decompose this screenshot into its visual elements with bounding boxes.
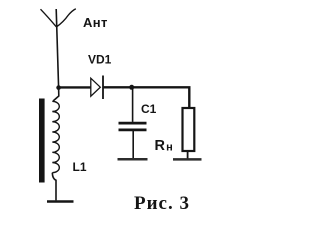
ground under resistor <box>173 158 202 161</box>
capacitor C1 bottom plate <box>119 129 147 132</box>
node junction antenna/diode <box>56 85 61 90</box>
resistor Rн body <box>183 108 195 151</box>
inductor L1 coil <box>52 101 59 172</box>
capacitor C1 top plate <box>119 122 147 125</box>
node junction C1 <box>129 85 134 90</box>
wire junction down to C1 <box>132 87 134 122</box>
wire coil bottom to ground <box>52 173 56 201</box>
svg-text:L1: L1 <box>73 160 87 174</box>
wire junction to diode anode <box>59 86 91 88</box>
ground under C1 <box>118 158 148 161</box>
antenna left arm <box>41 9 57 27</box>
svg-text:Ант: Ант <box>83 15 108 30</box>
diode VD1 triangle <box>91 78 101 96</box>
svg-text:VD1: VD1 <box>88 53 112 67</box>
ferrite core bar <box>39 99 45 183</box>
wire cathode to right corner and down to resistor <box>103 87 189 107</box>
wire resistor to ground <box>187 152 189 159</box>
wire junction down to coil top <box>53 88 59 101</box>
antenna mast wire <box>56 9 58 88</box>
wire C1 to ground <box>132 131 134 159</box>
svg-text:Рис. 3: Рис. 3 <box>134 193 190 214</box>
svg-text:C1: C1 <box>141 102 157 116</box>
diode VD1 cathode bar <box>102 76 104 100</box>
ground under coil <box>47 200 74 202</box>
antenna right arm <box>56 9 76 27</box>
